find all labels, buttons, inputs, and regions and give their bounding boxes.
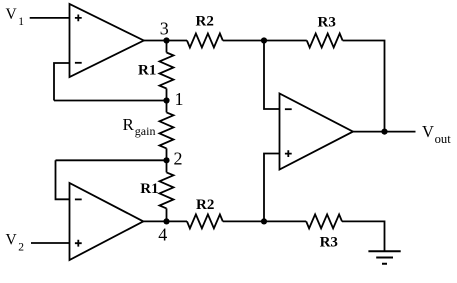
op-amp U3 minus input symbol: [285, 108, 292, 110]
resistor R2 (bottom): [187, 214, 223, 228]
wire junction B to U3 + input: [264, 154, 280, 222]
svg-text:R2: R2: [196, 197, 214, 213]
wire feedback to node 2: [56, 159, 167, 161]
ground: [368, 251, 400, 263]
node 4: [163, 218, 169, 224]
svg-text:2: 2: [18, 242, 24, 254]
wire U2 - input feedback stub: [56, 160, 70, 199]
wire V2 to U2 + input: [31, 242, 70, 244]
svg-text:R3: R3: [320, 234, 338, 250]
svg-text:3: 3: [160, 19, 169, 39]
svg-text:2: 2: [174, 149, 183, 169]
resistor R1 (bottom): [166, 160, 168, 172]
wire U1 - input feedback stub: [54, 63, 70, 101]
svg-text:4: 4: [158, 224, 167, 244]
wire R3 top to feedback corner: [343, 41, 385, 132]
op-amp U1 plus input symbol: [75, 15, 82, 22]
resistor Rgain: [166, 101, 168, 113]
op-amp U1: [70, 4, 144, 77]
wire U2 output to node 4: [143, 220, 187, 222]
wire feedback to node 1: [54, 100, 167, 102]
resistor R2 (top): [187, 34, 223, 48]
op-amp U3 plus input symbol: [285, 150, 292, 157]
wire R2 top to junction A: [223, 40, 307, 42]
node junction A: [261, 37, 267, 43]
wire U3 output to Vout: [353, 131, 416, 133]
svg-text:V: V: [6, 232, 18, 249]
wire R2 bottom to junction B: [223, 220, 306, 222]
svg-text:V: V: [6, 6, 18, 23]
svg-text:V: V: [422, 122, 434, 141]
op-amp U2 minus input symbol: [75, 198, 82, 200]
op-amp U2 plus input symbol: [75, 240, 82, 247]
svg-text:R1: R1: [138, 63, 156, 79]
svg-text:R1: R1: [140, 181, 158, 197]
svg-text:R3: R3: [318, 14, 336, 30]
resistor R3 (bottom): [306, 214, 342, 228]
svg-text:out: out: [435, 132, 452, 146]
node 1: [163, 97, 169, 103]
svg-text:gain: gain: [135, 124, 156, 138]
resistor R1 (top): [166, 41, 168, 53]
svg-text:1: 1: [18, 16, 24, 28]
resistor R3 (top): [307, 34, 343, 48]
wire U1 output to node 3: [144, 40, 187, 42]
svg-text:1: 1: [175, 89, 184, 109]
node junction B: [261, 218, 267, 224]
node 2: [163, 157, 169, 163]
wire V1 to U1 + input: [30, 17, 70, 19]
wire junction A to U3 - input: [264, 41, 280, 110]
wire R3 bottom to ground corner: [342, 221, 385, 251]
node output: [381, 129, 387, 135]
op-amp U1 minus input symbol: [75, 62, 82, 64]
svg-text:R2: R2: [196, 14, 214, 30]
node 3: [163, 37, 169, 43]
op-amp U3: [280, 94, 354, 170]
svg-text:R: R: [123, 115, 135, 134]
op-amp U2: [70, 183, 144, 260]
